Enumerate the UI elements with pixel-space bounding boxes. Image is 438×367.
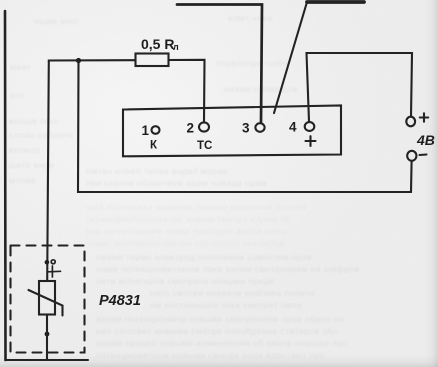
svg-text:4: 4 [289,120,297,135]
thermistor diagonal stroke [29,290,63,316]
svg-text:0,5 R: 0,5 R [141,36,174,52]
svg-text:4В: 4В [416,132,435,148]
pin 4 polarity + [306,136,316,146]
pin 2 terminal [199,122,209,131]
pin 4 number [289,120,297,135]
node: t-degree tap dot [45,260,50,265]
svg-text:л: л [173,42,179,52]
battery - terminal [407,151,416,161]
pin 1 number [142,123,150,138]
battery + terminal [406,117,415,127]
wire: thermometer branch (junction to thermistor) [47,61,49,281]
wire: loop to resistor input [49,59,136,62]
value label 0,5 R_L [141,36,179,52]
label t-degree [49,260,61,277]
thermistor body [39,281,55,315]
wire: top-right stub [307,0,364,4]
svg-text:ТС: ТС [197,140,212,152]
battery voltage label 4B [416,132,435,148]
wire: left loop vertical [4,11,7,360]
svg-text:1: 1 [142,123,150,138]
wire: supply plus feed (pin4 riser, top run, drop to + terminal) [307,53,413,122]
svg-text:2: 2 [187,121,195,136]
wire: minus return (junction A down, across, up to - terminal) [78,61,412,192]
pin 2 number [187,121,195,136]
pin 2 name TC [197,140,212,152]
pin 3 number [242,121,250,136]
svg-text:К: К [150,140,158,152]
pin 1 name K [150,140,158,152]
pin 4 terminal [305,122,315,131]
device label P4831 [99,293,141,309]
wire: resistor output to pin 2 [169,60,205,122]
dashed enclosure: thermometer P4831 [11,246,85,353]
pin 1 terminal [152,126,160,134]
node: junction A (resistor input / minus return) [76,58,81,63]
wire: thermistor to bottom return [46,315,48,361]
wire: bottom return [6,359,89,361]
resistor R_L [136,54,169,67]
svg-text:Р4831: Р4831 [99,293,141,309]
battery - sign [420,153,427,156]
pin 3 terminal [255,123,264,132]
node: bottom junction dot [45,332,50,337]
terminal block outline [123,106,341,157]
wire: diagonal feed to pin 3 [274,2,307,113]
wire: top feed to pin 3 [177,5,262,123]
battery + sign [420,113,428,121]
svg-text:3: 3 [242,121,250,136]
